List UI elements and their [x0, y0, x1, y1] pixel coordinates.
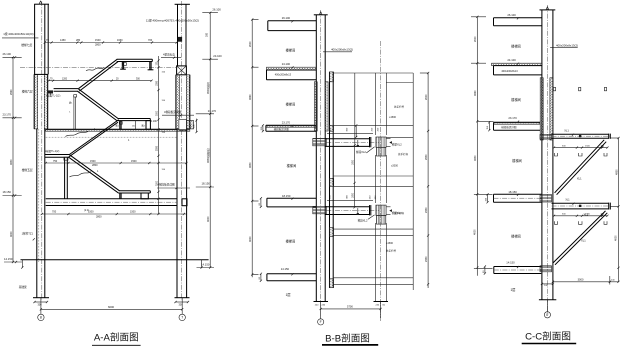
svg-text:26.100: 26.100: [507, 13, 516, 17]
B-B steel beam 1 stub arrow: [386, 138, 390, 140]
svg-text:1500: 1500: [90, 160, 96, 163]
C-C slab 18.150: [494, 193, 542, 195]
svg-text:400x200x8x13: 400x200x8x13: [501, 70, 518, 73]
A-A dimension line y80.7: [49, 80, 152, 82]
B-B steel beam 2 stub arrow: [386, 206, 390, 208]
svg-text:2800: 2800: [95, 44, 101, 47]
B-B steel beam 2 small dims above: [327, 200, 373, 202]
svg-text:11梁:400temp;#26753;:400x200x5: 11梁:400temp;#26753;:400x200x50x13(2): [146, 19, 199, 23]
B-B steel beam 2 hang-down hatch: [377, 215, 386, 224]
svg-text:楼梯间: 楼梯间: [511, 44, 521, 49]
svg-text:4000: 4000: [10, 231, 13, 237]
B-B steel beam 1 end plate: [369, 137, 371, 147]
svg-text:14.150: 14.150: [506, 261, 515, 265]
B-B steel beam 1 hang-down hatch: [377, 147, 386, 156]
A-A left column hatched wall block: [34, 74, 37, 128]
svg-text:梯段板见详图: 梯段板见详图: [274, 127, 290, 131]
section B-B stairwell elevation: [249, 10, 429, 345]
A-A dimension line y214: [42, 213, 187, 215]
svg-text:楼梯间: 楼梯间: [512, 158, 522, 163]
A-A squiggle leader 2: [65, 131, 88, 136]
B-B slab 18.150: [267, 197, 316, 199]
B-B steel beam 2 midspan mark: [357, 208, 359, 213]
svg-text:1梯梁TL-1(2）: 1梯梁TL-1(2）: [46, 93, 62, 97]
B-B slab 14.150 left dim: [260, 274, 262, 281]
svg-text:4梁顶标高: 4梁顶标高: [163, 52, 175, 56]
A-A beam label leader top-left: [2, 37, 38, 39]
A-A landing slab A left-middle: [54, 88, 79, 90]
svg-text:300: 300: [38, 304, 43, 307]
svg-text:F: F: [320, 320, 322, 324]
C-C beam 23.170 left dim: [488, 122, 490, 130]
svg-text:4梯段板见详图: 4梯段板见详图: [164, 110, 181, 114]
B-B stair shaft inner edge line: [354, 73, 356, 145]
svg-text:4950: 4950: [615, 169, 618, 175]
A-A squiggle leader 1: [86, 68, 104, 71]
B-B steel beam 2 end plate: [369, 205, 371, 215]
svg-text:楼梯间: 楼梯间: [287, 163, 297, 168]
C-C hatched slab 24.100: [492, 63, 542, 65]
B-B steel beam 1 wall crossing hatch: [376, 137, 386, 147]
B-B steel beam 1 small dims above: [327, 132, 373, 134]
B-B hatched slab 24.100: [267, 67, 317, 70]
A-A mid vertical dimension line x158.5: [158, 56, 160, 214]
svg-text:23.170: 23.170: [208, 109, 217, 113]
svg-text:扶手栏杆: 扶手栏杆: [386, 249, 397, 253]
A-A flight F1 stringer: [78, 59, 117, 88]
svg-text:4950(梯段板): 4950(梯段板): [206, 148, 210, 163]
svg-text:1500: 1500: [131, 160, 137, 163]
C-C beam 2 dimension: [554, 215, 607, 217]
B-B stairwell right wall: [329, 72, 331, 288]
A-A landing slab E bottom-right: [119, 190, 151, 192]
B-B right wall hatched blocks: [329, 72, 333, 82]
A-A grid bubble 8: [38, 314, 44, 320]
A-A landing A column bracket: [48, 91, 53, 94]
C-C brace 2: [553, 211, 606, 263]
svg-text:6000: 6000: [108, 305, 115, 309]
B-B far right wall: [412, 73, 414, 290]
svg-text:1450: 1450: [60, 39, 66, 42]
svg-text:400x200x8x13(2): 400x200x8x13(2): [331, 48, 353, 52]
svg-text:C-C剖面图: C-C剖面图: [525, 331, 571, 343]
svg-text:4930: 4930: [474, 90, 477, 96]
C-C beam 2 clips: [555, 221, 558, 224]
svg-text:1500: 1500: [585, 146, 591, 148]
svg-text:7: 7: [181, 316, 183, 320]
svg-text:楼梯间: 楼梯间: [511, 234, 521, 239]
svg-text:280: 280: [76, 39, 81, 42]
svg-text:1500: 1500: [585, 214, 591, 216]
svg-text:A-A剖面图: A-A剖面图: [94, 332, 139, 344]
svg-text:300: 300: [206, 32, 209, 37]
svg-text:1梁:400x200x50x13(20): 1梁:400x200x50x13(20): [3, 32, 33, 36]
svg-text:楼梯五层: 楼梯五层: [22, 168, 33, 172]
A-A left column upper shaft: [34, 4, 36, 74]
svg-text:扶手栏杆: 扶手栏杆: [394, 104, 405, 108]
svg-text:4000: 4000: [614, 235, 617, 241]
svg-text:24.100: 24.100: [507, 58, 516, 62]
A-A small dimension right of column floor 24.1: [196, 119, 198, 133]
A-A block under landing C right: [146, 121, 150, 130]
A-A hidden dashed line under floor 24.100: [46, 136, 177, 138]
svg-text:楼梯间: 楼梯间: [286, 239, 296, 244]
A-A landing slab B top-right: [117, 58, 153, 60]
svg-text:300: 300: [179, 304, 184, 307]
svg-text:4930: 4930: [249, 94, 252, 100]
A-A right column upper shaft: [177, 4, 179, 66]
C-C beam 1 weld mark: [579, 135, 581, 137]
svg-text:14.150: 14.150: [201, 262, 210, 266]
svg-text:楼梯七层: 楼梯七层: [21, 43, 32, 47]
A-A left outer vertical dimension: [12, 57, 14, 262]
C-C column footer tick: [539, 299, 556, 301]
C-C flag line 18.150 left: [474, 193, 493, 195]
svg-text:24.100: 24.100: [213, 54, 222, 58]
A-A left column grid dash-dot centerline: [41, 1, 43, 300]
A-A right column beam stub block at floor 24.1: [187, 121, 194, 129]
svg-text:26.100: 26.100: [282, 16, 291, 20]
B-B column footer tick: [314, 301, 329, 303]
svg-text:楼梯间: 楼梯间: [511, 97, 521, 102]
svg-text:4000: 4000: [207, 216, 210, 222]
A-A floor line 14.150: [21, 259, 209, 261]
A-A grid bubble 7: [179, 314, 185, 320]
svg-text:梯段XL2: 梯段XL2: [358, 218, 368, 222]
B-B shaft column: [315, 15, 317, 302]
A-A landing slab C mid-right: [118, 118, 151, 120]
svg-text:基础梁: 基础梁: [19, 285, 27, 289]
A-A elevation flag 23.170 left: [3, 117, 22, 119]
svg-text:梯段XL2: 梯段XL2: [356, 150, 366, 154]
A-A left column top arrow: [39, 1, 42, 4]
C-C slab 18.150 left dim: [487, 194, 489, 202]
A-A flight F4 stringer: [69, 155, 119, 191]
A-A right column X-braced top box: [177, 66, 187, 75]
svg-text:4500(梯井): 4500(梯井): [206, 82, 210, 94]
A-A squiggle leader 3: [69, 172, 91, 177]
svg-text:2000: 2000: [249, 41, 252, 47]
B-B beam 24.100: [267, 69, 317, 71]
svg-text:1650: 1650: [353, 159, 355, 165]
C-C cantilever beam 1 column hatch: [540, 135, 552, 140]
C-C grid extension line F: [546, 300, 548, 312]
C-C shaft column: [541, 10, 543, 300]
svg-text:18.150: 18.150: [3, 190, 12, 194]
B-B column hatched section: [314, 82, 317, 131]
A-A grid extension line 7: [181, 298, 183, 315]
svg-text:4950: 4950: [10, 159, 13, 165]
svg-text:750: 750: [53, 160, 58, 163]
svg-text:2950: 2950: [425, 154, 428, 160]
A-A tick on column x34 y239: [33, 238, 35, 240]
C-C brace 1: [555, 140, 605, 193]
svg-text:1梯梁TL-1(2): 1梯梁TL-1(2): [45, 149, 60, 153]
svg-text:18.150: 18.150: [508, 190, 517, 194]
svg-text:楼梯间: 楼梯间: [286, 48, 296, 53]
C-C beam 23.170: [494, 121, 541, 123]
B-B column top arrow: [319, 12, 322, 15]
C-C column centerline dash-dot: [546, 5, 548, 316]
svg-text:2000: 2000: [425, 94, 428, 100]
B-B steel beam 2: [325, 206, 370, 208]
svg-text:≥2000: ≥2000: [391, 165, 399, 168]
svg-text:XL1: XL1: [577, 176, 582, 180]
svg-text:5700: 5700: [347, 304, 353, 308]
svg-text:梯梁XL2: 梯梁XL2: [392, 143, 402, 147]
svg-text:14.150: 14.150: [4, 257, 13, 261]
A-A post under landing D: [64, 157, 66, 199]
A-A post under landing C left: [119, 121, 121, 130]
svg-text:2586: 2586: [157, 145, 159, 151]
svg-text:1650: 1650: [353, 192, 355, 198]
svg-text:1层: 1层: [511, 287, 516, 292]
A-A top dimension line 42.5: [45, 42, 177, 44]
A-A right column hatched wall block: [176, 75, 179, 129]
svg-text:4000: 4000: [473, 229, 476, 235]
svg-text:1540: 1540: [95, 39, 101, 42]
svg-text:400x200x8x13(2): 400x200x8x13(2): [556, 43, 578, 47]
A-A left small tick below floor 14.150: [21, 260, 23, 268]
A-A bottom dimension 6000: [41, 308, 182, 310]
B-B slab 26.100: [268, 20, 317, 22]
svg-text:1200: 1200: [62, 78, 68, 80]
C-C 14.150 through-column hatch: [540, 266, 552, 272]
A-A column footings: [33, 297, 49, 299]
svg-text:700: 700: [52, 211, 57, 214]
B-B column centerline dash-dot: [320, 10, 322, 319]
svg-text:XL1: XL1: [565, 199, 570, 202]
svg-text:2800: 2800: [92, 164, 98, 167]
A-A block under landing E right: [141, 193, 148, 199]
svg-text:XL1: XL1: [564, 129, 569, 133]
A-A post under landing A: [74, 95, 77, 97]
svg-text:14.150: 14.150: [281, 267, 290, 271]
svg-text:4000: 4000: [249, 236, 252, 242]
svg-text:扶手栏杆: 扶手栏杆: [398, 152, 409, 156]
svg-text:(2.1): (2.1): [84, 209, 89, 212]
A-A flag stair plate note low: [157, 187, 190, 189]
A-A right outer vertical dimension: [209, 13, 211, 268]
A-A band end block right: [182, 199, 187, 206]
svg-text:F: F: [546, 313, 548, 317]
B-B steel beam 1: [325, 138, 370, 140]
C-C beam 2 weld mark: [579, 205, 581, 207]
svg-text:2930: 2930: [10, 89, 13, 95]
svg-text:4梯段板见详图: 4梯段板见详图: [158, 183, 175, 187]
svg-text:1梯柱TZ1: 1梯柱TZ1: [22, 231, 34, 235]
svg-text:23.170: 23.170: [282, 121, 291, 125]
B-B slab 14.150: [267, 273, 316, 275]
B-B right rooms grid line F dash-dot: [380, 41, 382, 321]
svg-text:400x200x8x13: 400x200x8x13: [275, 74, 292, 77]
C-C flag line 14.150 left: [474, 267, 493, 269]
svg-text:8: 8: [40, 316, 42, 320]
C-C cantilever beam 2: [552, 202, 609, 204]
B-B steel beam 2 wall crossing hatch: [376, 205, 386, 215]
A-A footing dimension right: [176, 301, 189, 303]
A-A elevation flag 18.150 left: [3, 195, 22, 197]
svg-text:B-B剖面图: B-B剖面图: [325, 333, 370, 345]
B-B grid extension line F: [320, 302, 322, 319]
svg-text:4950: 4950: [474, 155, 477, 161]
A-A post under landing E left: [119, 193, 121, 199]
B-B steel beam 1 midspan mark: [357, 140, 359, 145]
svg-text:1500: 1500: [130, 211, 136, 214]
C-C cantilever beam 1: [552, 133, 609, 135]
svg-text:≥1500: ≥1500: [386, 242, 394, 245]
svg-text:23.170: 23.170: [3, 112, 12, 116]
C-C beam label leader: [550, 47, 578, 49]
A-A flag stair plate note mid: [162, 114, 194, 116]
A-A flight F2 stringer: [78, 89, 118, 119]
C-C column top arrow: [546, 7, 549, 10]
A-A right column white core box at floor 24.1: [179, 119, 187, 130]
A-A post under landing C middle: [134, 121, 136, 130]
A-A post under landing B left: [121, 62, 123, 70]
A-A flag beam top level 24.1: [161, 57, 181, 59]
C-C column hatched section: [540, 78, 543, 140]
svg-text:2000: 2000: [474, 36, 477, 42]
C-C slab 26.100: [494, 17, 542, 19]
svg-text:26.100: 26.100: [212, 7, 221, 11]
svg-text:2800: 2800: [96, 215, 102, 218]
svg-text:3000: 3000: [578, 277, 584, 281]
A-A right column black plate mark: [178, 37, 182, 41]
svg-text:18.150: 18.150: [282, 194, 291, 198]
A-A elevation flag 14.150 left: [4, 261, 22, 263]
svg-text:700: 700: [148, 39, 153, 42]
C-C 18.150 through-column hatch: [540, 195, 552, 203]
B-B right wall center extension: [380, 302, 382, 319]
A-A floor line 24.100: [46, 128, 177, 130]
svg-text:梯段板见详图: 梯段板见详图: [501, 125, 517, 129]
B-B right outer dimension: [420, 72, 428, 74]
svg-text:楼梯间: 楼梯间: [286, 102, 296, 107]
A-A mid dimension line y163: [46, 162, 187, 164]
C-C beam 24.100: [494, 65, 542, 67]
section C-C wall elevation with braces: [471, 5, 620, 344]
A-A right column lower shaft: [176, 129, 178, 298]
C-C beam 1 clips: [555, 153, 558, 156]
svg-text:24.100: 24.100: [282, 62, 291, 66]
A-A footing dimension left: [35, 301, 48, 303]
svg-text:1层: 1层: [286, 292, 291, 297]
C-C left flag lines: [471, 16, 486, 18]
svg-text:23.170: 23.170: [508, 116, 517, 120]
svg-text:XL1: XL1: [581, 239, 586, 243]
A-A right column grid dash-dot centerline: [181, 1, 183, 300]
A-A left column lower shaft: [36, 129, 38, 298]
svg-text:4950: 4950: [249, 162, 252, 168]
C-C slab 14.150: [494, 266, 542, 268]
svg-text:1586: 1586: [157, 80, 159, 86]
C-C left outer vertical dimension: [476, 17, 478, 276]
C-C small door marks right: [553, 87, 555, 90]
svg-text:2350: 2350: [425, 256, 428, 262]
B-B left outer vertical dimension: [251, 20, 253, 278]
B-B grid bubble F: [318, 319, 324, 325]
A-A post under landing B right: [149, 62, 151, 70]
svg-text:2350: 2350: [425, 207, 428, 213]
section A-A stair elevation: [2, 1, 222, 345]
A-A flight F3 stringer: [69, 120, 118, 155]
A-A elevation flag 26.100 left: [3, 56, 22, 58]
B-B mid landing vertical dim: [354, 145, 356, 207]
svg-text:18.150: 18.150: [202, 182, 211, 186]
A-A level dash-dot line 26.100: [20, 66, 177, 68]
C-C bottom dimension 3000: [553, 281, 619, 283]
A-A grid extension line 8: [40, 298, 42, 315]
svg-text:3000: 3000: [157, 110, 159, 116]
B-B right rooms wall left: [374, 73, 376, 135]
B-B right rooms wall right: [385, 73, 387, 135]
C-C beam 1 dimension: [554, 147, 607, 149]
svg-text:楼梯六层: 楼梯六层: [22, 89, 33, 93]
A-A right small tick below floor 14.150: [201, 260, 203, 268]
B-B slab 18.150 left dim: [260, 198, 262, 207]
B-B right rooms floor lines: [333, 72, 413, 74]
svg-text:4.100: 4.100: [151, 120, 158, 123]
svg-text:扶手栏杆: 扶手栏杆: [394, 211, 405, 215]
B-B small dim 150 at beam 23.170: [262, 125, 264, 131]
B-B beam 23.170: [266, 124, 316, 126]
svg-text:≥1500: ≥1500: [389, 116, 397, 119]
C-C grid bubble F: [544, 312, 550, 318]
B-B steel beam 1 column hatch: [313, 138, 327, 145]
C-C right outer dimension: [618, 138, 620, 282]
B-B right wall footer tick: [374, 301, 389, 303]
C-C slab 14.150 left dim: [484, 267, 486, 274]
A-A floor band 18.150: [46, 198, 177, 200]
A-A landing slab D left-middle: [45, 154, 70, 156]
svg-text:26.100: 26.100: [3, 52, 12, 56]
B-B steel beam 2 column hatch: [313, 206, 327, 213]
svg-text:1660: 1660: [117, 39, 123, 42]
